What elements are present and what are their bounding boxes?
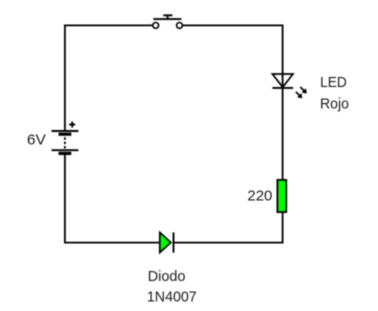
- battery B1 6V: [52, 122, 79, 154]
- wire: bottom horizontal from diode cathode to bottom-right corner: [174, 242, 283, 244]
- diode D1 1N4007: [160, 232, 174, 252]
- LED D2 (red): [272, 74, 306, 98]
- resistor R1 220 ohm: [277, 180, 286, 212]
- svg-text:1N4007: 1N4007: [147, 289, 197, 306]
- svg-text:220: 220: [247, 188, 272, 205]
- wire: right vertical from LED cathode to resistor top: [282, 88, 284, 180]
- svg-text:LED: LED: [320, 74, 347, 91]
- svg-text:6V: 6V: [27, 131, 46, 148]
- wire: left vertical from top-left corner to battery + terminal: [64, 25, 66, 131]
- wire: right vertical from resistor bottom to bottom-right corner: [282, 212, 284, 244]
- wire: top horizontal from top-left corner to switch left contact: [64, 24, 153, 26]
- svg-text:Diodo: Diodo: [148, 268, 186, 285]
- wire: top horizontal from switch right contact to top-right corner: [183, 24, 283, 26]
- svg-text:Rojo: Rojo: [320, 95, 349, 112]
- wire: left vertical from battery - terminal to bottom-left corner: [64, 155, 66, 244]
- wire: right vertical from top-right corner to LED anode: [282, 25, 284, 75]
- wire: bottom horizontal from bottom-left corner to diode anode: [64, 242, 160, 244]
- pushbutton switch S1 (normally open): [153, 15, 183, 28]
